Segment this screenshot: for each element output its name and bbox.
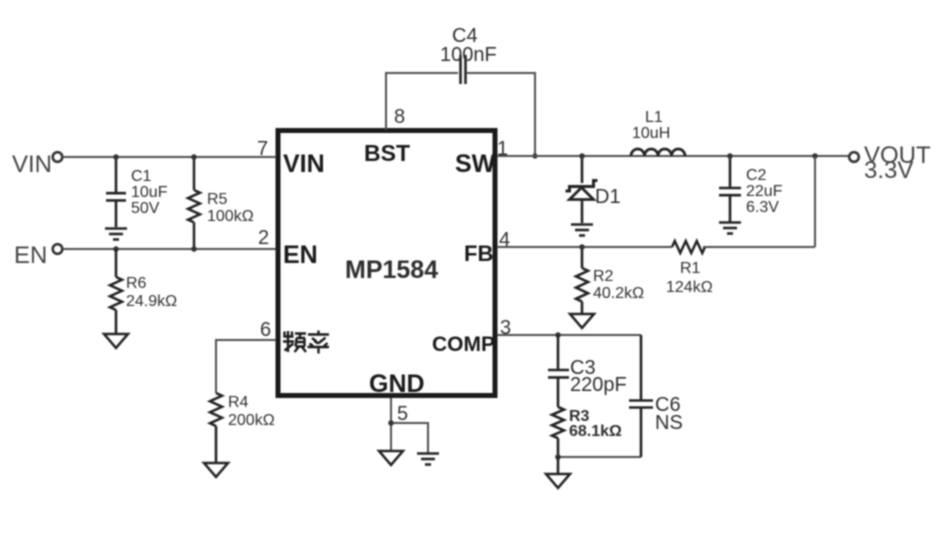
diode D1 (schottky) [566,156,598,223]
svg-text:124kΩ: 124kΩ [666,279,713,296]
svg-text:C1: C1 [131,168,152,185]
wire VOUT down to FB divider [814,156,816,247]
junction R5/EN [191,246,197,252]
svg-text:R2: R2 [593,268,614,285]
label C4 value [440,25,497,66]
wire SW net [497,155,849,157]
ground (arrow) below R3 [546,457,570,488]
svg-text:5: 5 [397,403,408,425]
svg-text:C2: C2 [746,167,767,184]
IC U1 MP1584 body [278,131,495,396]
capacitor C4 [461,55,466,84]
wire VIN net to pin 7 [63,156,276,158]
svg-text:R6: R6 [126,275,147,292]
svg-text:L1: L1 [645,109,663,126]
capacitor C1 [106,157,126,227]
label C6 value [655,394,683,434]
junction pin5 [388,420,394,426]
ground (3-line) below C2 [719,223,741,234]
ground (3-line) below C1 [105,229,127,240]
svg-text:VIN: VIN [283,150,325,178]
svg-text:NS: NS [655,412,683,434]
junction C3/COMP [555,332,561,338]
label C3 value [570,357,627,396]
junction C2/SW [727,153,733,159]
resistor R2 [576,247,588,314]
wire comp bottom [558,456,641,458]
svg-text:100nF: 100nF [440,44,497,66]
junction R3/bottom [555,454,561,460]
svg-text:220pF: 220pF [570,374,627,396]
label L1 value [632,109,670,142]
junction C1/VIN [113,154,119,160]
svg-text:10uF: 10uF [131,184,168,201]
svg-text:COMP: COMP [432,333,495,356]
junction FB-divider/VOUT [812,153,818,159]
svg-text:BST: BST [364,140,410,166]
svg-text:R4: R4 [228,394,249,411]
label R5 value [207,191,254,225]
svg-text:10uH: 10uH [632,125,670,142]
label R1 value [666,260,713,296]
svg-text:R1: R1 [680,260,701,277]
resistor R4 [210,393,222,463]
label R6 value [126,275,177,310]
label R3 value [569,408,622,440]
svg-text:2: 2 [258,227,269,249]
svg-text:D1: D1 [595,186,621,208]
wire FB net right segment [703,246,815,248]
svg-text:22uF: 22uF [746,183,783,200]
label R2 value [593,268,644,302]
capacitor C2 [719,156,741,222]
resistor R1 [672,241,705,253]
svg-text:24.9kΩ: 24.9kΩ [126,293,177,310]
svg-text:200kΩ: 200kΩ [228,412,275,429]
svg-text:GND: GND [369,370,425,398]
wire C4 top left [385,72,458,74]
svg-text:6: 6 [260,319,271,341]
ground (3-line) below D1 [571,225,593,236]
pin FREQ name (chinese pinlv) [283,331,329,354]
svg-text:50V: 50V [131,200,160,217]
ground (arrow) below R4 [204,463,228,477]
svg-text:100kΩ: 100kΩ [207,208,254,225]
svg-text:EN: EN [283,241,318,269]
resistor R5 [188,157,200,249]
resistor R6 [110,249,122,334]
ground (3-line) right of pin 5 [417,454,439,465]
svg-text:SW: SW [455,150,496,178]
svg-text:40.2kΩ: 40.2kΩ [593,285,644,302]
ground (arrow) below R6 [104,334,128,348]
wire BST pin 8 up [385,74,387,130]
wire pin 6 to R4 [216,340,276,393]
svg-text:7: 7 [257,138,268,160]
svg-text:EN: EN [14,242,47,269]
svg-text:MP1584: MP1584 [345,256,438,284]
junction R5/VIN [191,154,197,160]
svg-text:68.1kΩ: 68.1kΩ [569,423,622,440]
label C1 value [131,168,168,217]
terminal VOUT circle [849,152,859,162]
junction C1/EN [113,246,119,252]
terminal VIN circle [53,152,63,162]
svg-text:8: 8 [394,106,405,128]
svg-text:R5: R5 [207,191,228,208]
svg-text:VIN: VIN [12,151,52,178]
wire EN net to pin 2 [63,248,276,250]
resistor R3 [552,407,564,457]
capacitor C3 [548,335,569,407]
label R4 value [228,394,275,429]
ground (arrow) below pin 5 [379,451,403,465]
junction R2/FB [579,244,585,250]
inductor L1 [631,149,685,156]
label C2 value [746,167,783,216]
ground (arrow) below R2 [570,314,594,328]
wire COMP net [497,334,641,336]
wire FB net left segment [497,246,672,248]
svg-text:FB: FB [464,241,493,266]
junction C4/SW [532,153,537,158]
svg-text:6.3V: 6.3V [746,199,779,216]
capacitor C6 [629,335,653,457]
svg-text:3.3V: 3.3V [864,157,913,184]
junction D1/SW [579,153,585,159]
wire GND pin 5 [391,398,428,453]
wire C4 top right [467,73,535,156]
terminal EN circle [53,244,63,254]
node VOUT port label [864,142,931,184]
